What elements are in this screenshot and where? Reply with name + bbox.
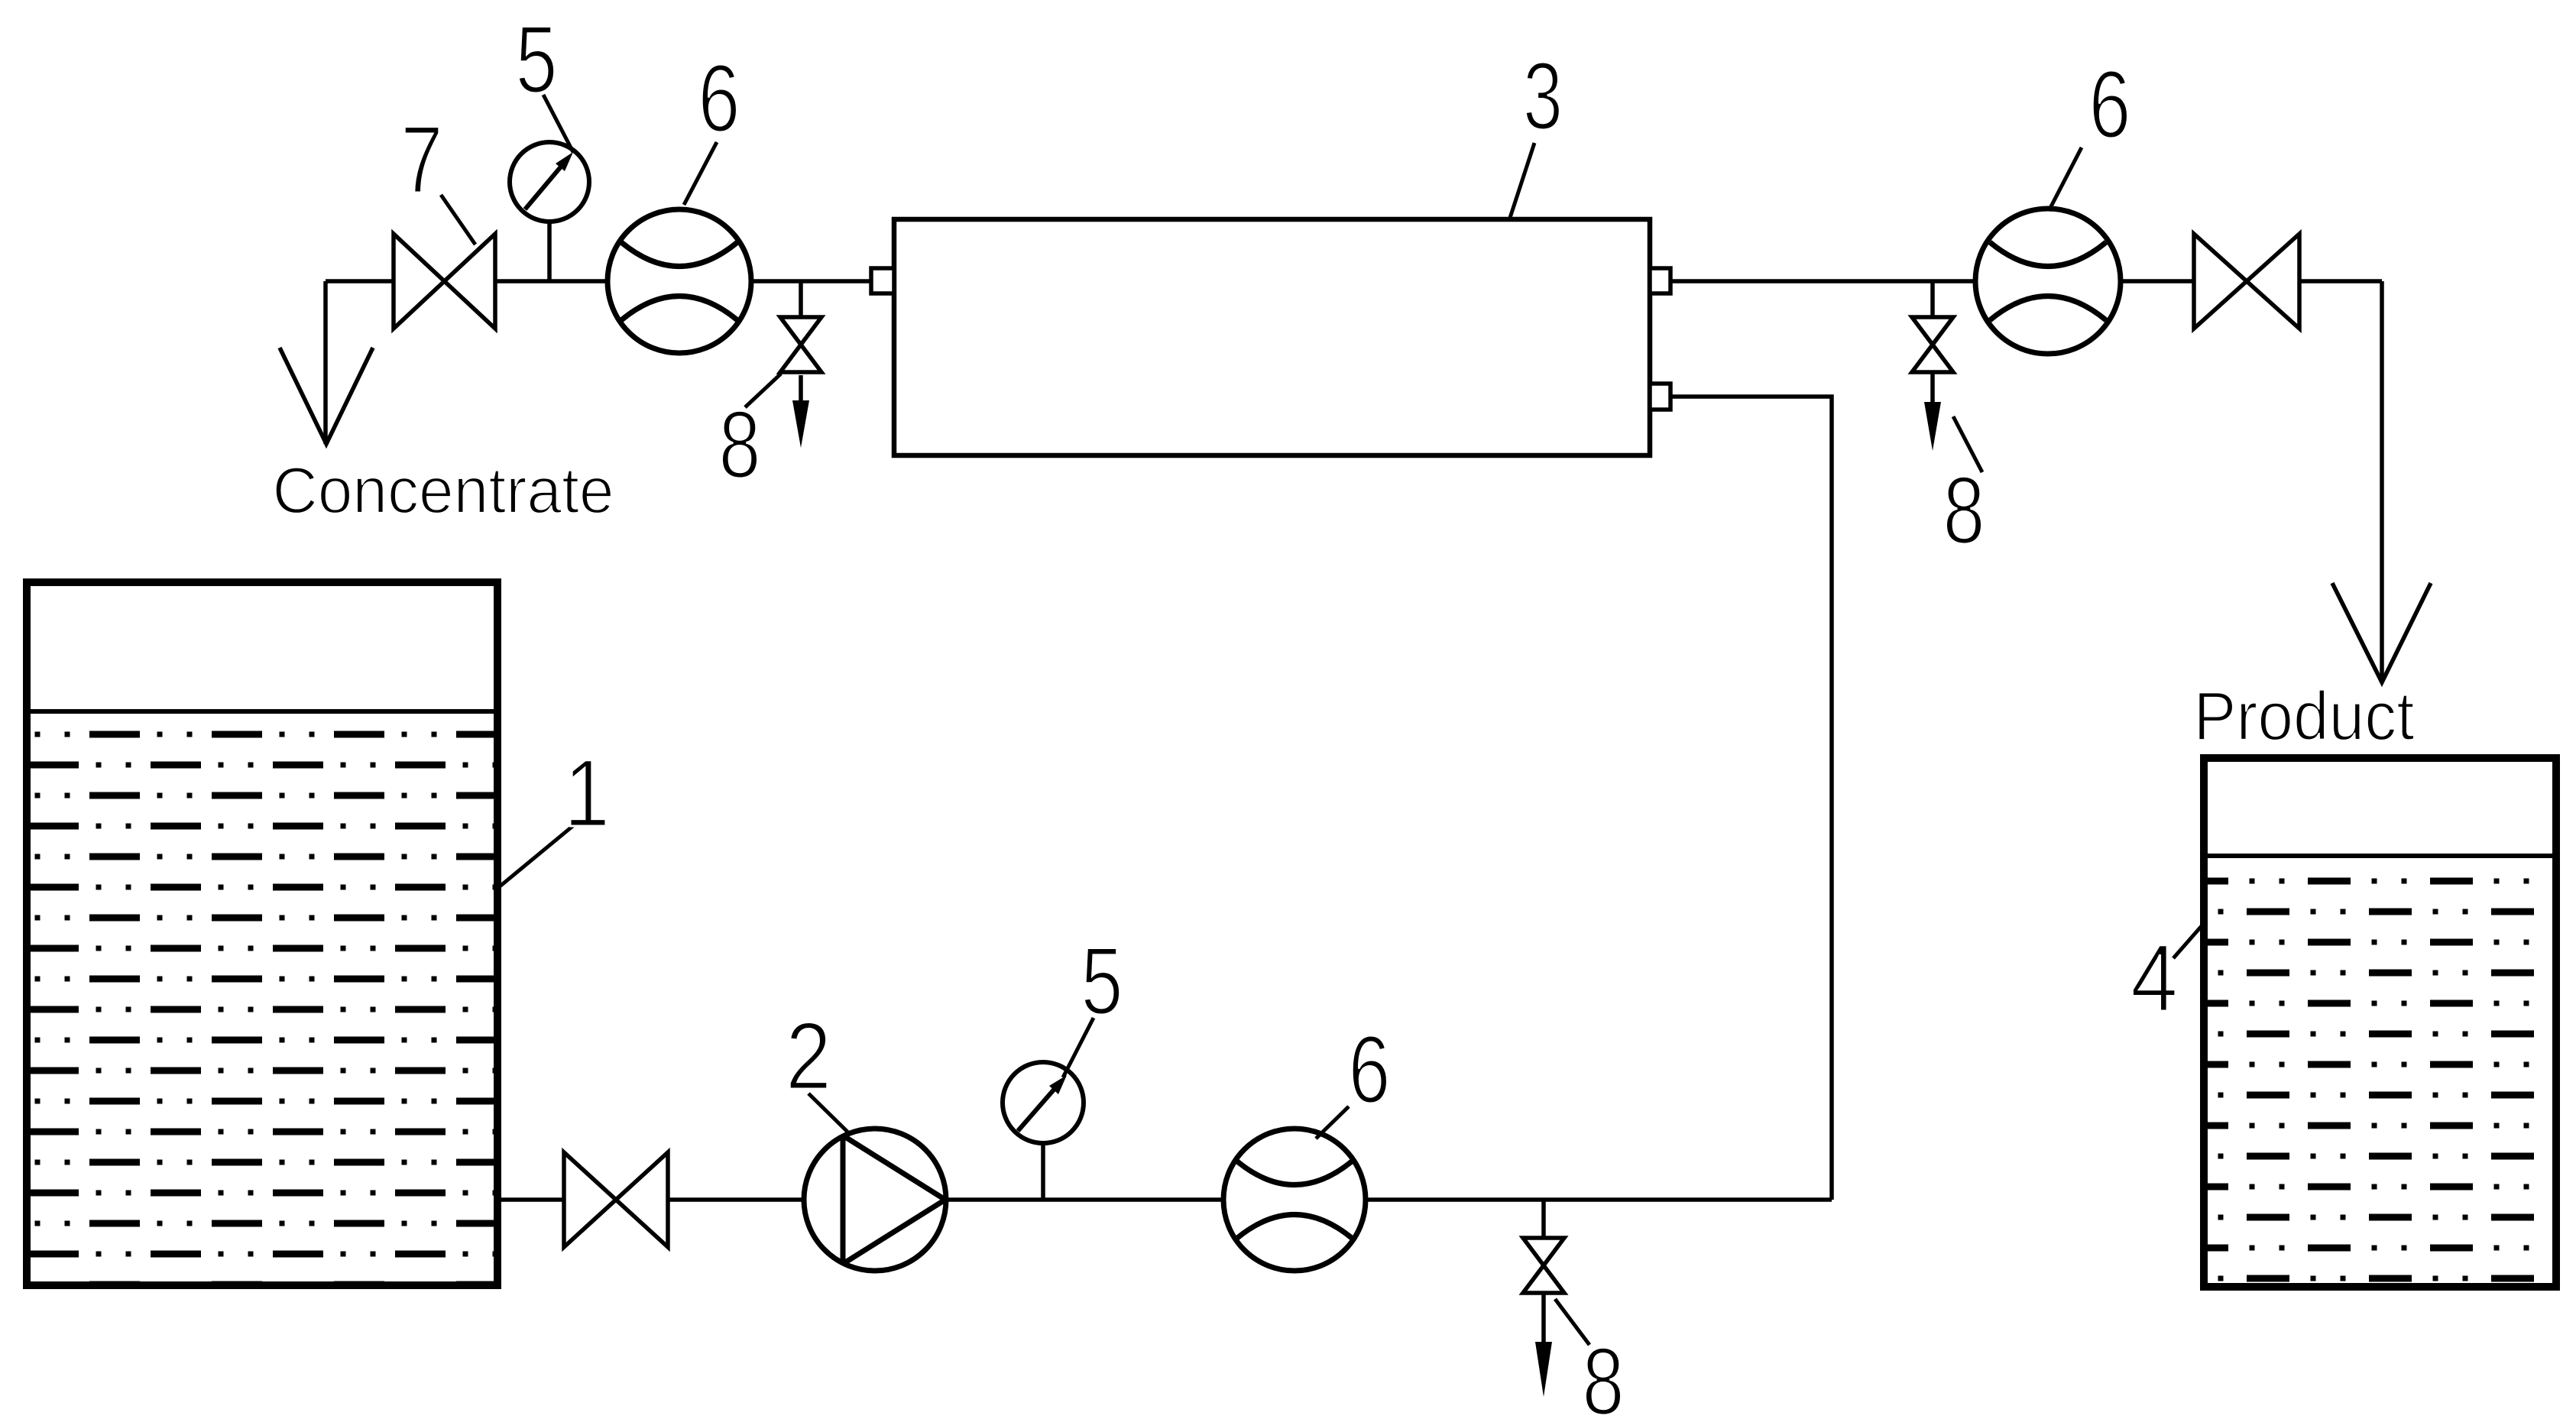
svg-text:7: 7	[401, 107, 443, 213]
svg-text:6: 6	[2089, 52, 2131, 158]
svg-text:8: 8	[1583, 1329, 1625, 1419]
svg-text:Concentrate: Concentrate	[273, 455, 614, 527]
svg-text:6: 6	[698, 46, 740, 152]
svg-text:4: 4	[2130, 925, 2178, 1032]
svg-text:6: 6	[1349, 1017, 1391, 1123]
svg-text:Product: Product	[2194, 679, 2415, 755]
svg-text:8: 8	[1943, 458, 1985, 564]
svg-text:5: 5	[1081, 928, 1123, 1035]
svg-text:5: 5	[516, 7, 558, 113]
svg-text:8: 8	[719, 392, 761, 498]
svg-text:3: 3	[1523, 44, 1563, 150]
svg-text:2: 2	[786, 1003, 831, 1110]
svg-text:1: 1	[564, 740, 610, 847]
